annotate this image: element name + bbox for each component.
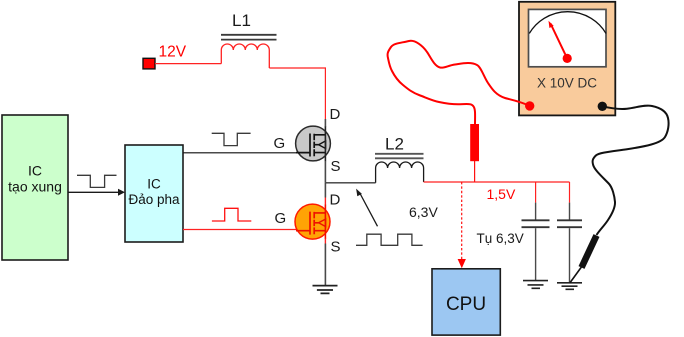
waveform pulses below L2: [356, 234, 423, 245]
svg-text:Tụ 6,3V: Tụ 6,3V: [477, 231, 524, 246]
ground C1: [523, 281, 548, 289]
wire source Q2 to ground: [324, 244, 326, 286]
capacitor C2: [557, 220, 582, 227]
svg-text:D: D: [330, 192, 341, 209]
svg-text:L1: L1: [232, 11, 251, 30]
svg-text:6,3V: 6,3V: [409, 204, 438, 220]
capacitor C1 lead red: [535, 182, 537, 203]
red bus wire 1.5V: [424, 181, 570, 183]
transistor Q2: [295, 204, 330, 239]
wire source Q2 red: [324, 239, 326, 244]
transistor Q1: [296, 126, 331, 161]
12V supply terminal: [143, 58, 155, 69]
branch arrow to CPU: [458, 182, 466, 268]
red test lead wire: [388, 41, 530, 124]
wire node to L2: [325, 182, 375, 184]
svg-text:G: G: [274, 135, 286, 152]
svg-text:G: G: [275, 210, 287, 227]
capacitor C1: [522, 220, 550, 227]
svg-text:IC: IC: [147, 177, 161, 192]
L1 core: [221, 35, 277, 40]
wire drain Q2 red: [324, 198, 326, 206]
wire 12V to L1: [155, 63, 221, 65]
wire L1 to drain: [269, 68, 325, 119]
inductor L2: [376, 162, 424, 183]
black test lead wire: [593, 106, 669, 235]
wire drain gray: [324, 119, 326, 127]
svg-text:X 10V DC: X 10V DC: [537, 76, 597, 91]
waveform pulse above gate Q1: [212, 133, 251, 145]
capacitor C1 lead top: [535, 203, 537, 220]
svg-text:tạo xung: tạo xung: [8, 179, 62, 195]
ground C2: [557, 283, 582, 290]
red probe body: [470, 124, 479, 161]
black probe tip: [570, 266, 583, 284]
svg-text:CPU: CPU: [446, 294, 486, 315]
arrow pointing to node: [356, 189, 377, 227]
red probe contact wire: [474, 160, 476, 182]
svg-text:L2: L2: [385, 135, 404, 154]
inductor L1: [221, 44, 269, 68]
svg-text:S: S: [331, 158, 341, 175]
svg-text:D: D: [330, 106, 341, 123]
waveform pulse between boxes: [77, 175, 117, 187]
svg-text:12V: 12V: [159, 44, 187, 61]
svg-text:IC: IC: [28, 163, 42, 179]
capacitor C2 lead bottom: [569, 228, 571, 282]
L2 core: [375, 154, 424, 159]
wire gate Q1: [183, 152, 298, 154]
black probe body: [582, 236, 597, 268]
CPU box: [432, 269, 500, 335]
ground main: [313, 286, 338, 294]
svg-text:1,5V: 1,5V: [487, 186, 516, 202]
capacitor C2 lead red: [569, 182, 571, 203]
svg-text:Đảo pha: Đảo pha: [128, 192, 180, 207]
svg-text:S: S: [331, 239, 341, 256]
wire source Q1 to node: [324, 161, 326, 183]
multimeter: [519, 2, 615, 116]
wire gate Q2 red: [183, 229, 297, 231]
arrow green box to blue box: [68, 189, 125, 196]
waveform red pulse above gate Q2: [212, 208, 251, 221]
capacitor C2 lead top: [569, 203, 571, 220]
green box IC tao xung: [2, 115, 68, 260]
wire node to drain Q2: [324, 183, 326, 198]
blue box IC Dao pha: [125, 145, 183, 242]
capacitor C1 lead bottom: [535, 228, 537, 280]
